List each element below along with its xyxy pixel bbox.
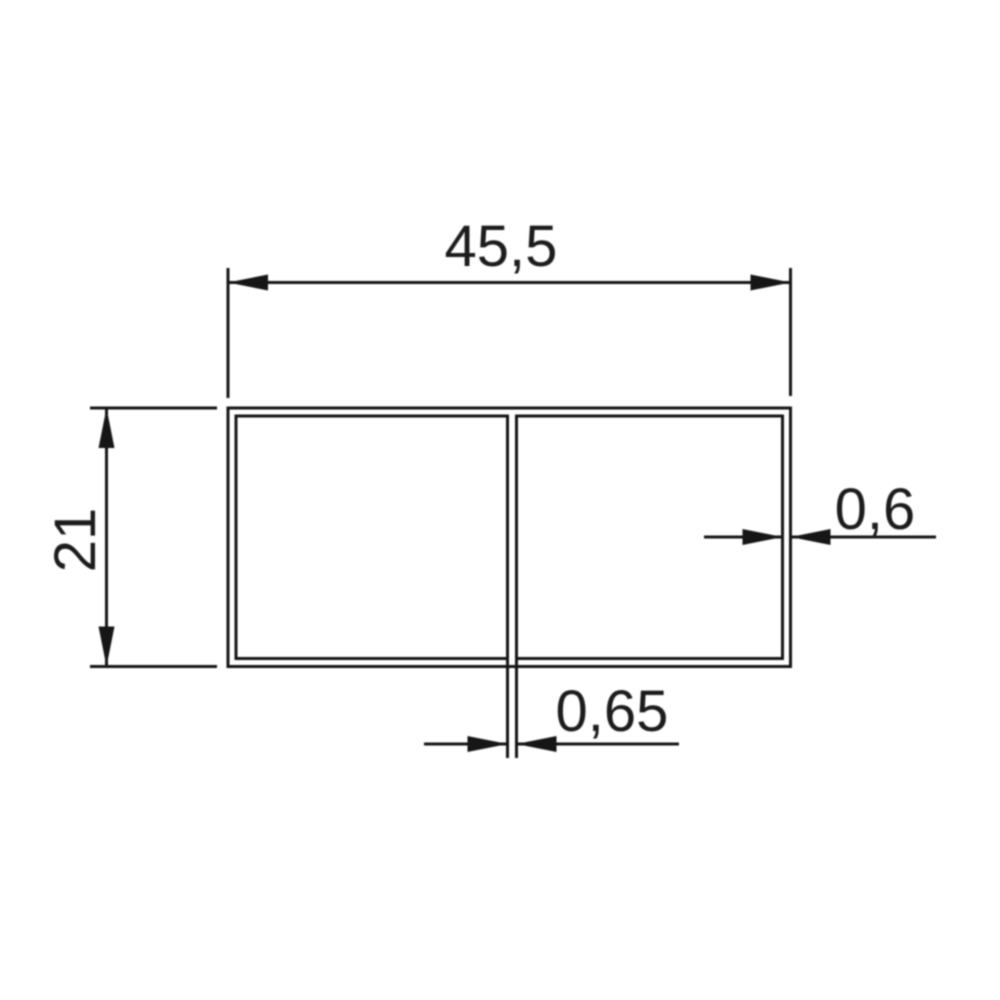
svg-text:21: 21	[43, 508, 108, 573]
svg-text:0,6: 0,6	[835, 477, 916, 542]
svg-text:45,5: 45,5	[445, 214, 558, 279]
svg-text:0,65: 0,65	[556, 679, 669, 744]
